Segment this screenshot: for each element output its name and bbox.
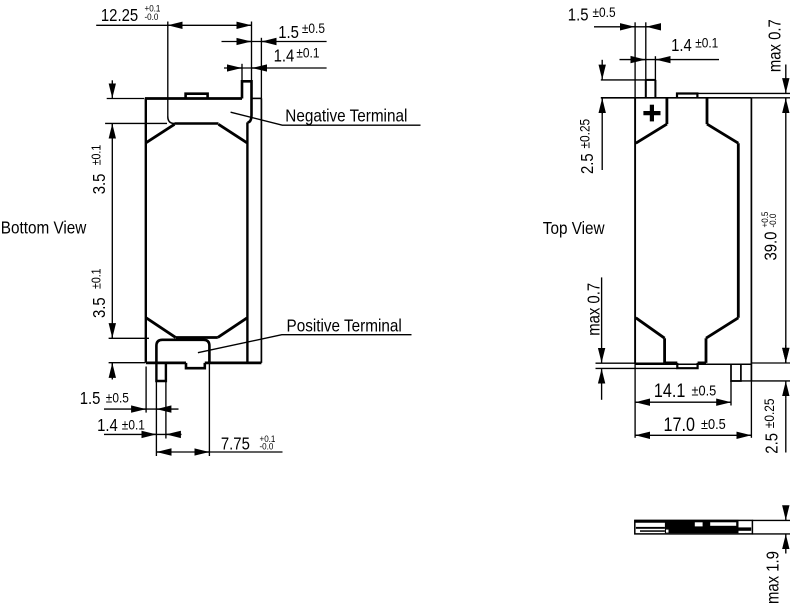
svg-text:Bottom View: Bottom View [1,217,87,237]
figure bottom edge [635,363,751,365]
body left edge [145,99,147,363]
plate bottom edge [175,122,219,125]
bottom chamfer right [218,318,247,338]
neck bottom edge [176,336,218,339]
svg-text:±0.25: ±0.25 [576,119,592,149]
svg-text:1.4: 1.4 [97,416,118,435]
svg-text:±0.1: ±0.1 [122,417,145,433]
extension line plate bottom [105,122,167,124]
dim text 3.5 upper [90,145,109,195]
extension line neck bottom [109,337,149,339]
extension line side view top [752,519,790,521]
svg-text:±0.1: ±0.1 [296,44,319,60]
svg-text:max 0.7: max 0.7 [765,19,784,72]
svg-text:1.5: 1.5 [568,5,589,24]
dim max 0.7 left lower [601,277,603,349]
svg-text:Top View: Top View [543,218,606,238]
neck bottom edge [665,361,706,364]
svg-text:±0.25: ±0.25 [761,399,777,429]
plate bottom-left arc [168,117,175,124]
svg-text:1.5: 1.5 [80,389,101,408]
svg-text:±0.5: ±0.5 [701,415,726,432]
svg-text:7.75: 7.75 [221,435,250,454]
svg-text:-0.0: -0.0 [767,214,778,228]
svg-text:12.25: 12.25 [101,6,138,25]
extension line plate top [107,98,145,100]
side view top face [635,520,739,523]
svg-text:±0.5: ±0.5 [593,4,616,20]
dim text 39.0 with tolerance [760,211,781,260]
svg-text:2.5: 2.5 [762,433,781,454]
top chamfers [636,124,739,143]
dim 1.5 bottom [104,408,179,410]
dim max 1.9 [785,507,787,520]
extension line bump bottom left [596,367,678,369]
svg-text:±0.5: ±0.5 [692,381,717,398]
body left edge [634,98,636,365]
side view notch 2 [710,522,736,526]
svg-text:±0.1: ±0.1 [90,145,104,166]
dim 1.4 [620,59,720,61]
extension line tab inner edge [167,22,169,117]
bottom edge [146,361,262,364]
plus symbol [643,111,660,115]
side view cell body fill [665,522,739,534]
extension line neck bottom left [596,362,665,364]
positive pin [156,363,166,381]
extension line hook outer edge [251,22,253,82]
bottom chamfer left [146,318,175,338]
dim text max 0.7 top right [765,19,784,72]
dim text max 1.9 [763,551,782,604]
cell right edge [737,143,740,318]
side view negative tab strip [636,527,665,529]
extension line band outer edge [260,38,262,99]
band outer edge [260,98,262,363]
svg-text:1.4: 1.4 [274,47,295,66]
extension line right outer edge [750,381,752,438]
extension line top edge right [751,97,790,99]
top edge with ext [601,97,752,99]
dim text 3.5 lower [90,268,109,318]
dim text 2.5 bottom right [761,399,782,454]
hook verticals [645,22,647,98]
dim 1.5 top line [222,41,327,43]
svg-text:max 0.7: max 0.7 [585,283,604,336]
svg-text:1.4: 1.4 [671,36,692,55]
top bump [186,94,208,99]
dim 39.0 [785,98,787,363]
extension line bump top [697,92,790,94]
dim max 0.7 top right [785,65,787,94]
leader negative terminal [231,112,421,125]
extension line plate right edge [208,363,210,456]
svg-text:Negative Terminal: Negative Terminal [285,105,407,125]
side view lower strip [640,530,665,532]
top chamfer left [146,124,174,142]
svg-text:3.5: 3.5 [90,297,109,318]
right outer edge [750,98,752,381]
hook profile (negative tab) [646,80,656,98]
dim 2.5 bottom right [785,345,787,363]
top chamfer right [219,124,248,143]
bottom chamfers [636,318,739,338]
svg-text:±0.5: ±0.5 [106,389,129,405]
extension line bottom edge right [751,362,790,364]
neck top [667,98,707,124]
svg-text:-0.0: -0.0 [260,441,274,452]
dim 1.4 top line [224,67,327,69]
hook top ext [601,79,656,81]
dim 3.5 #1 [111,80,113,98]
side view notch 3 [666,530,669,533]
extension line body left edge [145,367,147,413]
pin [731,364,741,381]
top edge [145,97,242,100]
svg-text:2.5: 2.5 [578,153,597,174]
extension line pin left edge [730,381,732,406]
svg-text:3.5: 3.5 [90,174,109,195]
extension line side view bottom [752,533,790,535]
extension line pin right edge [165,381,167,439]
dim 17.0 [635,434,751,436]
svg-text:-0.0: -0.0 [145,12,159,23]
svg-text:max 1.9: max 1.9 [763,551,782,604]
extension line body left edge bottom [634,364,636,438]
svg-text:1.5: 1.5 [278,23,299,42]
dim 12.25 line [96,24,251,26]
extension line body left edge top [634,22,636,98]
dim 7.75 [156,451,282,453]
extension line hook left edge [241,64,243,82]
extension line pin left edge [155,381,157,456]
top bump [677,94,697,98]
leader positive terminal [198,335,412,353]
dim text max 0.7 lower left [585,283,604,336]
dim 1.5 [594,26,661,28]
hook (negative tab) [242,81,252,122]
band jog [252,97,262,99]
cell right edge [246,122,248,363]
extension line pin bottom [731,380,790,382]
dim 14.1 [635,401,731,403]
bottom bump [186,363,205,368]
neck bottom verticals [665,338,706,363]
dim text 2.5 upper left [576,119,597,174]
svg-text:±0.1: ±0.1 [695,34,718,50]
dim 2.5 upper [601,60,603,80]
dim 1.4 bottom [104,433,182,435]
svg-text:±0.1: ±0.1 [90,268,104,289]
side view positive pin [738,527,751,530]
extension line body bottom [109,362,145,364]
svg-text:±0.5: ±0.5 [302,20,325,36]
side view notch 1 [695,522,703,526]
bottom bump [677,363,697,368]
svg-text:39.0: 39.0 [761,232,780,261]
svg-text:Positive Terminal: Positive Terminal [287,315,402,335]
positive plate [156,340,209,363]
svg-text:14.1: 14.1 [654,380,685,402]
svg-text:17.0: 17.0 [664,414,696,436]
side view outline [635,520,753,534]
